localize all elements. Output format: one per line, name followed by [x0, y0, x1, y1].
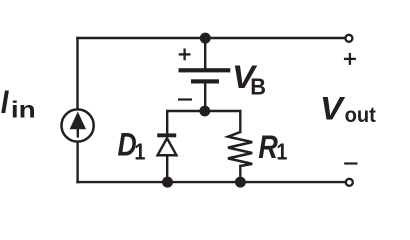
svg-text:out: out [345, 104, 376, 127]
label I_in [1, 84, 36, 122]
diode cathode bar [157, 133, 176, 137]
wire left vertical upper [76, 38, 78, 110]
node dot bottom-left (diode / bottom rail) [162, 177, 173, 188]
node dot middle (battery / branch junction) [199, 106, 210, 117]
diode triangle (anode) [158, 138, 177, 155]
wire diode bottom lead [166, 155, 168, 182]
resistor R1 zigzag [228, 132, 252, 166]
node dot top (battery / top rail junction) [200, 33, 211, 44]
output plus sign [344, 53, 356, 65]
output minus sign [344, 162, 357, 164]
label V_B [232, 59, 266, 99]
terminal bottom-right (output -) [346, 179, 353, 186]
battery minus sign [178, 98, 192, 100]
svg-text:I: I [1, 84, 10, 120]
wire resistor bottom lead [239, 166, 241, 182]
battery bottom plate (short) [191, 79, 219, 83]
diode D1 [157, 133, 176, 155]
label R_1 [258, 129, 287, 165]
battery top plate (long) [179, 68, 231, 72]
current source I_in [62, 109, 94, 141]
wire bottom horizontal [78, 181, 346, 183]
label V_out [320, 90, 376, 127]
wire top horizontal [78, 37, 345, 39]
svg-text:B: B [250, 73, 266, 99]
wire resistor top lead [239, 111, 241, 132]
terminal top-right (output +) [345, 35, 352, 42]
battery V_B [179, 68, 231, 83]
svg-text:V: V [320, 90, 346, 126]
wire battery top lead [204, 38, 206, 68]
battery plus sign [179, 49, 191, 61]
label D_1 [118, 126, 146, 164]
wire middle horizontal (node to branches) [168, 110, 241, 112]
svg-text:R: R [258, 129, 278, 165]
wire diode top lead [166, 111, 168, 133]
svg-text:1: 1 [134, 138, 145, 164]
wire battery bottom lead [204, 84, 206, 112]
svg-text:1: 1 [276, 139, 287, 165]
wire left vertical lower [76, 142, 78, 183]
svg-text:in: in [11, 97, 36, 123]
node dot bottom-right (resistor / bottom rail) [235, 177, 246, 188]
